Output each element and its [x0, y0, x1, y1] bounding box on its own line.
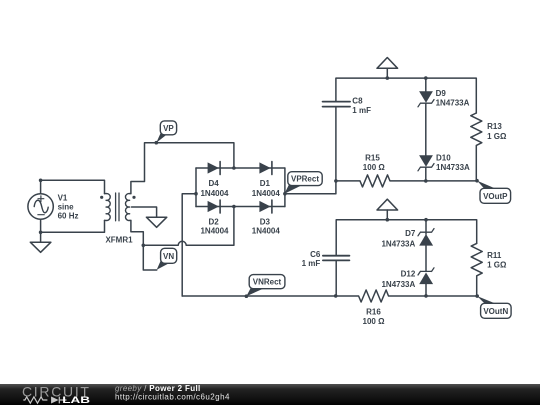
svg-text:http://circuitlab.com/c6u2gh4: http://circuitlab.com/c6u2gh4 — [115, 392, 230, 401]
svg-text:R11: R11 — [487, 251, 502, 260]
svg-text:D7: D7 — [405, 229, 416, 238]
svg-text:1N4733A: 1N4733A — [381, 280, 415, 289]
svg-text:1 mF: 1 mF — [302, 259, 321, 268]
svg-text:VPRect: VPRect — [291, 175, 319, 184]
svg-text:R13: R13 — [487, 122, 502, 131]
svg-text:D9: D9 — [436, 89, 447, 98]
svg-text:1N4004: 1N4004 — [252, 227, 281, 236]
svg-text:LAB: LAB — [62, 396, 90, 405]
svg-text:1N4733A: 1N4733A — [436, 99, 470, 108]
svg-text:R16: R16 — [366, 307, 381, 316]
svg-text:1N4004: 1N4004 — [252, 189, 281, 198]
svg-text:D2: D2 — [208, 217, 219, 226]
svg-text:1N4004: 1N4004 — [200, 189, 229, 198]
svg-text:C6: C6 — [310, 250, 321, 259]
svg-text:60 Hz: 60 Hz — [58, 211, 79, 220]
svg-text:VOutN: VOutN — [483, 307, 508, 316]
svg-text:1 GΩ: 1 GΩ — [487, 260, 507, 269]
svg-text:D12: D12 — [401, 270, 416, 279]
svg-text:1 mF: 1 mF — [352, 106, 371, 115]
svg-text:100 Ω: 100 Ω — [363, 317, 386, 326]
svg-text:VN: VN — [163, 252, 174, 261]
svg-text:1N4733A: 1N4733A — [381, 239, 415, 248]
svg-text:XFMR1: XFMR1 — [105, 236, 133, 245]
svg-text:D1: D1 — [260, 179, 271, 188]
svg-text:V1: V1 — [58, 193, 68, 202]
svg-text:VNRect: VNRect — [253, 278, 282, 287]
svg-text:R15: R15 — [365, 154, 380, 163]
svg-text:100 Ω: 100 Ω — [363, 163, 386, 172]
svg-text:VOutP: VOutP — [483, 192, 508, 201]
svg-text:1 GΩ: 1 GΩ — [487, 132, 507, 141]
svg-text:sine: sine — [58, 202, 75, 211]
svg-text:C8: C8 — [352, 96, 363, 105]
svg-text:1N4733A: 1N4733A — [436, 163, 470, 172]
svg-text:D4: D4 — [208, 179, 219, 188]
svg-text:D10: D10 — [436, 153, 451, 162]
svg-text:D3: D3 — [260, 217, 271, 226]
svg-text:VP: VP — [163, 124, 174, 133]
svg-text:1N4004: 1N4004 — [200, 227, 229, 236]
